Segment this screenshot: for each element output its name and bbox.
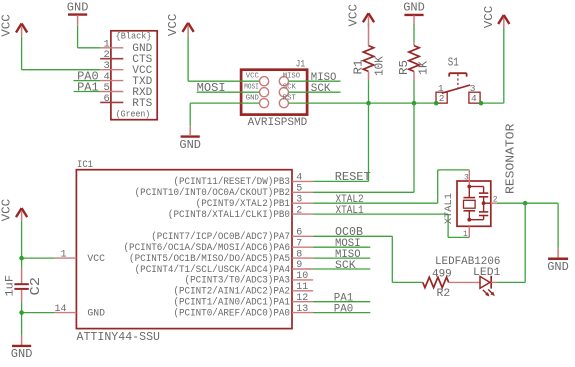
svg-text:6: 6	[296, 228, 302, 239]
svg-text:(PCINT9/XTAL2)PB1: (PCINT9/XTAL2)PB1	[196, 198, 291, 209]
svg-text:S1: S1	[448, 56, 459, 70]
svg-text:PA1: PA1	[77, 81, 99, 94]
svg-text:XTAL1: XTAL1	[336, 205, 365, 217]
svg-text:13: 13	[296, 304, 308, 315]
svg-text:(PCINT4/T1/SCL/USCK/ADC4)PA4: (PCINT4/T1/SCL/USCK/ADC4)PA4	[135, 264, 291, 275]
svg-text:10K: 10K	[374, 56, 387, 76]
svg-text:GND: GND	[547, 260, 569, 274]
svg-text:7: 7	[296, 238, 302, 249]
svg-text:(PCINT0/AREF/ADC0)PA0: (PCINT0/AREF/ADC0)PA0	[173, 307, 290, 318]
svg-text:LED1: LED1	[473, 267, 501, 279]
svg-text:499: 499	[432, 268, 452, 280]
svg-text:RESONATOR: RESONATOR	[503, 124, 517, 194]
svg-text:RST: RST	[283, 94, 296, 102]
svg-text:J1: J1	[296, 59, 306, 71]
svg-text:(PCINT2/AIN1/ADC2)PA2: (PCINT2/AIN1/ADC2)PA2	[173, 286, 290, 297]
svg-text:VCC: VCC	[0, 14, 14, 37]
svg-text:8: 8	[296, 249, 302, 260]
svg-text:GND: GND	[67, 0, 89, 14]
svg-text:PA0: PA0	[334, 303, 354, 315]
svg-text:6: 6	[103, 93, 109, 105]
svg-text:(PCINT5/OC1B/MISO/DO/ADC5)PA5: (PCINT5/OC1B/MISO/DO/ADC5)PA5	[129, 253, 290, 264]
svg-text:R1: R1	[353, 59, 366, 74]
svg-text:1: 1	[463, 230, 468, 239]
svg-text:VCC: VCC	[347, 4, 361, 27]
svg-text:2: 2	[493, 196, 498, 205]
svg-text:ATTINY44-SSU: ATTINY44-SSU	[77, 331, 161, 344]
svg-text:(Green): (Green)	[116, 109, 151, 120]
svg-text:R2: R2	[437, 288, 451, 300]
svg-text:11: 11	[296, 282, 308, 293]
svg-text:RESET: RESET	[335, 170, 371, 184]
svg-text:GND: GND	[246, 94, 259, 102]
svg-text:MOSI: MOSI	[244, 83, 259, 91]
svg-text:AVRISPSMD: AVRISPSMD	[248, 117, 308, 129]
svg-text:1: 1	[60, 249, 66, 260]
svg-text:(PCINT7/ICP/OC0B/ADC7)PA7: (PCINT7/ICP/OC0B/ADC7)PA7	[151, 231, 290, 242]
svg-text:VCC: VCC	[246, 72, 259, 80]
svg-text:12: 12	[296, 293, 308, 304]
svg-text:(PCINT3/T0/ADC3)PA3: (PCINT3/T0/ADC3)PA3	[185, 275, 291, 286]
svg-text:MISO: MISO	[283, 72, 300, 80]
svg-text:(PCINT1/AIN0/ADC1)PA1: (PCINT1/AIN0/ADC1)PA1	[173, 297, 290, 308]
svg-text:GND: GND	[403, 1, 425, 15]
svg-text:{Black}: {Black}	[116, 31, 152, 42]
svg-text:(PCINT6/OC1A/SDA/MOSI/ADC6)PA6: (PCINT6/OC1A/SDA/MOSI/ADC6)PA6	[124, 242, 291, 253]
svg-text:VCC: VCC	[87, 253, 105, 264]
svg-text:(PCINT8/XTAL1/CLKI)PB0: (PCINT8/XTAL1/CLKI)PB0	[168, 209, 290, 220]
svg-text:10: 10	[296, 271, 308, 282]
svg-text:IC1: IC1	[77, 159, 93, 171]
svg-text:SCK: SCK	[311, 83, 331, 95]
svg-text:4: 4	[471, 93, 477, 104]
svg-text:14: 14	[54, 304, 66, 315]
svg-text:1: 1	[438, 83, 444, 94]
svg-text:SCK: SCK	[283, 83, 297, 91]
svg-text:VCC: VCC	[482, 6, 496, 29]
svg-text:4: 4	[296, 173, 302, 184]
svg-text:1uF: 1uF	[4, 275, 16, 297]
svg-text:3: 3	[464, 174, 469, 183]
svg-text:GND: GND	[87, 307, 105, 318]
svg-text:1K: 1K	[418, 61, 431, 75]
svg-text:MOSI: MOSI	[197, 82, 226, 95]
svg-text:XTAL1: XTAL1	[443, 193, 455, 224]
svg-text:3: 3	[296, 194, 302, 205]
svg-text:2: 2	[296, 205, 302, 216]
svg-text:GND: GND	[11, 347, 33, 361]
svg-text:SCK: SCK	[335, 260, 356, 272]
svg-text:(PCINT10/INT0/OC0A/CKOUT)PB2: (PCINT10/INT0/OC0A/CKOUT)PB2	[135, 187, 291, 198]
svg-text:GND: GND	[179, 138, 201, 152]
svg-text:5: 5	[296, 184, 302, 195]
svg-text:(PCINT11/RESET/DW)PB3: (PCINT11/RESET/DW)PB3	[173, 176, 290, 187]
svg-text:2: 2	[439, 93, 445, 104]
svg-text:R5: R5	[398, 60, 411, 75]
svg-text:VCC: VCC	[166, 14, 180, 37]
svg-text:9: 9	[296, 260, 302, 271]
svg-text:3: 3	[470, 83, 476, 94]
svg-text:C2: C2	[29, 277, 44, 296]
svg-text:VCC: VCC	[0, 199, 14, 222]
